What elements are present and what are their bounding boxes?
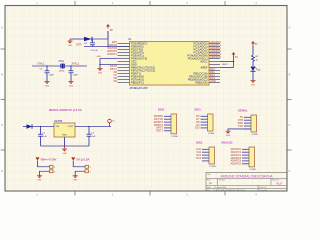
- ground (regulator): [62, 149, 67, 155]
- net label DTR: [76, 43, 81, 47]
- wire diode to 5V rail: [91, 38, 109, 40]
- svg-text:GND: GND: [45, 85, 50, 87]
- svg-text:C: C: [289, 123, 291, 127]
- wire U1 GND bus: [97, 56, 118, 68]
- wire XTAL1 rail: [32, 65, 60, 67]
- wire VIN to P1 pin 1: [38, 161, 51, 167]
- connector P2 pin 2: [85, 170, 92, 174]
- wire LED to ground: [252, 71, 254, 80]
- wire C1 to bottom rail: [40, 137, 42, 147]
- junction (5V vertical / reset wire): [107, 46, 109, 48]
- connector P1 pin 1: [50, 165, 57, 169]
- svg-text:DIG2: DIG2: [196, 141, 203, 145]
- connector SERIAL pin wires: [244, 117, 251, 129]
- svg-text:D10: D10: [210, 67, 215, 71]
- svg-text:XTAL2: XTAL2: [72, 62, 80, 65]
- svg-text:D11: D11: [210, 70, 215, 74]
- net label XTAL2: [72, 62, 80, 65]
- svg-text:PD5(T1): PD5(T1): [131, 71, 141, 75]
- revision V1.0: [276, 182, 282, 185]
- svg-text:AREF: AREF: [200, 65, 207, 69]
- svg-text:PD4(XCK/T0): PD4(XCK/T0): [131, 56, 147, 60]
- connector DIG2 header: [196, 141, 203, 145]
- svg-text:PB2(SS/OC1B): PB2(SS/OC1B): [189, 74, 207, 78]
- power port 5V arrow (output header): [72, 158, 76, 161]
- svg-text:PB7(XTAL2/TOSC2): PB7(XTAL2/TOSC2): [131, 68, 155, 72]
- microcontroller U1 body: [130, 42, 210, 86]
- svg-text:22pF: 22pF: [49, 75, 55, 77]
- svg-text:PD2(INT0): PD2(INT0): [131, 50, 144, 54]
- svg-text:GND: GND: [62, 153, 67, 155]
- svg-text:C: C: [1, 123, 3, 127]
- connector DIG0 header: [158, 108, 165, 112]
- power 5V (reset cluster): [106, 24, 113, 39]
- connector DIG2 pin wires: [202, 149, 209, 161]
- wire crystal rail right cap drop: [70, 66, 72, 71]
- svg-text:Number: Number: [219, 180, 226, 182]
- svg-text:VIN: VIN: [56, 126, 60, 128]
- svg-text:D2/INT0: D2/INT0: [107, 49, 117, 53]
- svg-text:PC4(ADC4/SDA): PC4(ADC4/SDA): [187, 53, 207, 57]
- regulator U2 body: [54, 123, 75, 137]
- connector DIG0 net labels: [154, 115, 164, 133]
- ground (LED): [251, 81, 256, 87]
- power 5V (AVCC): [232, 52, 239, 59]
- U1 part number label: [130, 86, 149, 90]
- wire AREF to 5V: [220, 67, 234, 69]
- svg-text:CON6: CON6: [250, 169, 257, 171]
- wire AVCC/AREF vertical: [233, 55, 235, 68]
- svg-text:PD0(RXD): PD0(RXD): [131, 44, 144, 48]
- svg-text:VCC: VCC: [131, 59, 137, 63]
- ground (P1): [37, 176, 42, 182]
- capacitor C3 22pF: [39, 69, 54, 77]
- title block frame: [206, 173, 287, 192]
- net label XTAL1: [37, 62, 45, 65]
- wire C2 to bottom rail: [88, 137, 90, 147]
- svg-text:PB5(SCK): PB5(SCK): [195, 80, 207, 84]
- connector DIG1 net labels: [195, 115, 200, 130]
- svg-text:LM7805: LM7805: [54, 121, 63, 123]
- svg-text:PC5(ADC5/SCL): PC5(ADC5/SCL): [188, 56, 208, 60]
- junction (left cap / rail): [46, 65, 48, 67]
- wire C3 to ground: [46, 73, 48, 81]
- power port VIN arrow: [36, 158, 40, 161]
- svg-text:CON5: CON5: [208, 133, 215, 135]
- capacitor C2: [87, 127, 96, 138]
- connector ANALOG pin wires: [242, 149, 249, 164]
- svg-text:D13: D13: [196, 157, 201, 160]
- svg-text:D6: D6: [114, 70, 118, 74]
- svg-text:GND: GND: [97, 56, 102, 58]
- svg-text:REGULADOR 5V @1.5A: REGULADOR 5V @1.5A: [49, 108, 83, 112]
- svg-text:GND: GND: [131, 62, 137, 66]
- svg-text:CON5: CON5: [252, 134, 259, 136]
- wire XTAL2 rail: [65, 65, 87, 67]
- connector SERIAL header: [238, 109, 248, 113]
- svg-text:PC0(ADC0): PC0(ADC0): [194, 41, 208, 45]
- svg-text:PB0(ICP1): PB0(ICP1): [131, 80, 144, 84]
- wire diode to regulator VIN: [32, 126, 54, 128]
- capacitor C4 22pF: [69, 71, 79, 77]
- wire R1 to LED: [252, 62, 254, 67]
- svg-text:AD2/PC2: AD2/PC2: [210, 46, 221, 50]
- svg-text:CON6: CON6: [172, 136, 179, 138]
- svg-text:.1uF: .1uF: [91, 136, 96, 138]
- wire 5V to P2 pin 1: [73, 161, 85, 167]
- wire GND to diode: [70, 38, 84, 40]
- ground (SERIAL): [226, 131, 231, 137]
- svg-text:A: A: [289, 26, 291, 30]
- svg-text:D10: D10: [195, 127, 200, 130]
- svg-text:PD3(INT1): PD3(INT1): [131, 53, 144, 57]
- wire regulator bottom rail: [41, 145, 90, 147]
- connector DIG1 pin wires: [201, 116, 208, 128]
- junction (AVCC vertical): [233, 61, 235, 63]
- svg-text:PB6(XTAL1/TOSC1): PB6(XTAL1/TOSC1): [131, 65, 155, 69]
- svg-text:PD7(AIN1): PD7(AIN1): [131, 77, 144, 81]
- svg-text:GND: GND: [62, 135, 67, 137]
- wire P1 pin 2 to ground: [40, 171, 50, 175]
- ground (reset cluster): [68, 39, 73, 47]
- title text ARDUINO STANDALONE/JCBACHA: [221, 174, 274, 178]
- svg-text:SERIAL: SERIAL: [238, 109, 248, 113]
- U1 pin stubs: [118, 44, 221, 83]
- U1 pin names: [131, 41, 208, 84]
- connector DIG2 type label: [210, 166, 217, 168]
- svg-text:5V: 5V: [110, 30, 113, 32]
- wire P2 pin 2 to ground: [75, 171, 85, 175]
- svg-text:GND: GND: [98, 72, 103, 74]
- wire crystal rail left cap drop: [46, 66, 48, 71]
- regulator U2 designator: [54, 121, 63, 123]
- capacitor C1: [38, 127, 47, 138]
- connector P1 pin 2: [50, 170, 57, 174]
- svg-text:D1/TXD: D1/TXD: [108, 46, 117, 50]
- svg-text:PC2(ADC2): PC2(ADC2): [194, 47, 208, 51]
- crystal Y1: [59, 60, 66, 73]
- svg-text:GND: GND: [251, 84, 256, 86]
- connector SERIAL net labels: [238, 116, 244, 128]
- svg-text:D5/T1: D5/T1: [156, 130, 163, 133]
- connector SERIAL body: [251, 115, 257, 132]
- svg-text:PC3(ADC3): PC3(ADC3): [194, 50, 208, 54]
- connector ANALOG net labels: [231, 148, 242, 166]
- U1 right net labels D10-D13: [210, 67, 216, 83]
- net label 5V @1.5A: [76, 157, 90, 161]
- svg-text:PC1(ADC1): PC1(ADC1): [194, 44, 208, 48]
- wire VIN input: [23, 126, 27, 128]
- resistor R1: [252, 55, 260, 62]
- svg-text:D9: D9: [114, 79, 118, 83]
- wire DTR to capacitor C5: [84, 46, 108, 48]
- connector DIG0 pin wires: [164, 116, 171, 131]
- svg-text:4MHz: 4MHz: [59, 70, 64, 72]
- wire regulator GND pin: [64, 137, 66, 146]
- svg-text:File:: File:: [207, 190, 211, 192]
- svg-text:Drawn By:: Drawn By:: [259, 190, 268, 192]
- svg-text:AD5/PC5: AD5/PC5: [231, 163, 242, 166]
- svg-text:D7: D7: [114, 73, 118, 77]
- svg-text:U1: U1: [128, 37, 132, 41]
- wire gnd stub: [64, 146, 66, 149]
- svg-text:GND: GND: [68, 45, 73, 47]
- svg-text:B: B: [1, 73, 3, 77]
- svg-text:CON5: CON5: [210, 166, 217, 168]
- svg-text:RST: RST: [112, 40, 118, 44]
- svg-text:GND: GND: [210, 79, 216, 83]
- svg-text:GND: GND: [37, 180, 42, 182]
- svg-text:D: D: [289, 169, 291, 173]
- net label VIN=>7-20V: [41, 157, 57, 161]
- diode D1: [84, 37, 92, 45]
- svg-text:5V @1.5A: 5V @1.5A: [76, 157, 90, 161]
- svg-text:DTR: DTR: [76, 43, 81, 47]
- svg-text:ARDUINO STANDALONE/JCBACHA: ARDUINO STANDALONE/JCBACHA: [221, 174, 274, 178]
- svg-text:22pF: 22pF: [73, 75, 79, 77]
- svg-text:PC6(/RESET): PC6(/RESET): [131, 41, 148, 45]
- connector DIG2 net labels: [196, 148, 201, 160]
- svg-text:D5/T1: D5/T1: [110, 67, 118, 71]
- connector DIG2 body: [209, 147, 215, 164]
- connector SERIAL type label: [252, 134, 259, 136]
- ground (C4): [69, 82, 74, 88]
- svg-text:PB3(MOSI/OC2): PB3(MOSI/OC2): [188, 77, 208, 81]
- svg-text:B: B: [289, 73, 291, 77]
- connector DIG1 header: [195, 108, 202, 112]
- svg-text:C5 1uF: C5 1uF: [91, 50, 99, 52]
- svg-text:PB1(OC1A): PB1(OC1A): [194, 71, 208, 75]
- wire SERIAL gnd pin: [228, 129, 251, 131]
- junction (C2 tap): [88, 126, 90, 128]
- section header REGULADOR: [49, 108, 83, 112]
- wire regulator VOUT rail: [75, 126, 111, 128]
- svg-text:D8: D8: [114, 76, 118, 80]
- diode D3 (input): [27, 124, 33, 129]
- border zone tick marks: [1, 1, 292, 196]
- wire C4 to ground: [70, 73, 72, 81]
- svg-text:V1.0: V1.0: [276, 182, 282, 185]
- connector DIG1 body: [208, 114, 214, 131]
- connector ANALOG type label: [250, 169, 257, 171]
- svg-text:XTAL1: XTAL1: [37, 62, 45, 65]
- svg-text:TXD: TXD: [238, 125, 243, 128]
- wire reset net to U1 pin 1: [108, 46, 130, 48]
- connector ANALOG header: [221, 141, 233, 145]
- junction (regulator gnd): [64, 145, 66, 147]
- svg-text:D: D: [1, 169, 3, 173]
- svg-text:AVCC: AVCC: [200, 59, 207, 63]
- sheet background and grid: [0, 0, 300, 199]
- connector DIG1 type label: [208, 133, 215, 135]
- svg-text:Revision: Revision: [272, 180, 279, 182]
- op-amp U1 designator: [128, 37, 132, 41]
- svg-text:.1uF: .1uF: [43, 136, 48, 138]
- svg-text:PD6(AIN0): PD6(AIN0): [131, 74, 144, 78]
- svg-text:AD5/PC5: AD5/PC5: [210, 55, 221, 59]
- sheet border frame: [5, 6, 287, 192]
- capacitor C5: [90, 39, 98, 52]
- connector DIG0 type label: [172, 136, 179, 138]
- wire AVCC to 5V: [220, 61, 234, 63]
- svg-text:LED: LED: [257, 70, 262, 72]
- svg-text:VIN=>7-20V: VIN=>7-20V: [41, 157, 57, 161]
- svg-text:ATMEGA8-16PI: ATMEGA8-16PI: [130, 86, 149, 90]
- svg-text:5V: 5V: [255, 44, 258, 46]
- power 5V (LED): [251, 41, 258, 55]
- ground (P2): [73, 176, 78, 182]
- connector DIG0 body: [171, 114, 177, 134]
- title block small captions: [207, 173, 279, 192]
- svg-text:DIG1: DIG1: [195, 108, 202, 112]
- ground (U1 GND pins): [98, 69, 103, 75]
- svg-text:A: A: [1, 26, 3, 30]
- svg-text:AD4/PC4: AD4/PC4: [210, 52, 221, 56]
- svg-text:VOUT: VOUT: [67, 126, 74, 128]
- power port 5V (regulator output): [108, 119, 115, 126]
- svg-text:GND: GND: [226, 135, 231, 137]
- LED D2: [251, 67, 262, 72]
- svg-text:AD0/PC0: AD0/PC0: [210, 40, 221, 44]
- U1 left net labels: [107, 40, 117, 83]
- svg-text:D0/RXD: D0/RXD: [107, 43, 117, 47]
- junction (C1 tap): [40, 126, 42, 128]
- border zone labels: [1, 1, 291, 196]
- svg-text:AD3/PC3: AD3/PC3: [210, 49, 221, 53]
- U1 right net labels AD0-AD5: [210, 40, 221, 59]
- svg-text:GND: GND: [69, 85, 74, 87]
- svg-text:D12: D12: [210, 73, 215, 77]
- connector P2 pin 1: [85, 165, 92, 169]
- svg-text:PD1(TXD): PD1(TXD): [131, 47, 143, 51]
- connector ANALOG body: [249, 147, 255, 167]
- junction (right cap / rail): [70, 65, 72, 67]
- svg-text:AD1/PC1: AD1/PC1: [210, 43, 221, 47]
- svg-text:D3/INT1: D3/INT1: [107, 52, 117, 56]
- net label AVCC: [223, 63, 229, 66]
- svg-text:GND: GND: [73, 180, 78, 182]
- svg-text:Size: Size: [207, 180, 211, 182]
- wire 5V vertical to RESET row: [107, 39, 109, 47]
- svg-text:DIG0: DIG0: [158, 108, 165, 112]
- ground (C3): [45, 82, 50, 88]
- svg-text:5V: 5V: [235, 57, 238, 59]
- svg-text:D13: D13: [210, 76, 215, 80]
- svg-text:ANALOG: ANALOG: [221, 141, 233, 145]
